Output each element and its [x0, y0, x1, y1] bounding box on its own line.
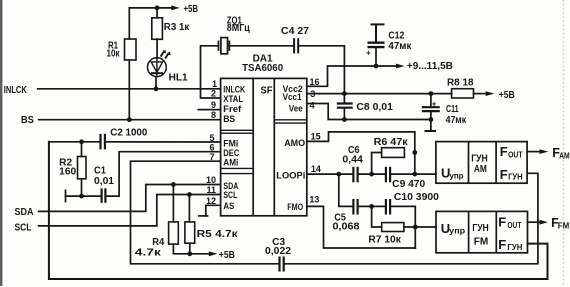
svg-text:1: 1	[212, 79, 217, 89]
node C11/Vee	[429, 117, 434, 122]
node C6/C9/R6	[369, 172, 374, 177]
svg-text:упр: упр	[449, 226, 465, 236]
node R3/+5V	[155, 6, 160, 11]
wire R4 top lead	[172, 185, 174, 222]
svg-text:ГУН: ГУН	[472, 222, 489, 234]
wire C9 to AM block input	[390, 173, 436, 175]
svg-text:F: F	[500, 144, 508, 159]
block U upr / GUN FM / F out	[436, 211, 528, 252]
wire pin6 DEC down to C1	[105, 152, 220, 196]
svg-text:SCL: SCL	[15, 222, 32, 233]
node R7/FM input	[413, 225, 418, 230]
capacitor C1	[102, 188, 106, 203]
svg-text:FM: FM	[558, 222, 570, 231]
svg-text:Vcc1: Vcc1	[283, 92, 303, 103]
wire R5 bottom lead	[189, 243, 191, 254]
svg-text:+5В: +5В	[499, 90, 515, 101]
wire C4 right down to Vcc1 node and C8	[298, 46, 344, 104]
resistor R6	[382, 148, 405, 158]
svg-text:0,068: 0,068	[333, 222, 360, 233]
node R6 right	[412, 150, 417, 155]
svg-text:47мк: 47мк	[446, 115, 467, 126]
wire pin4 Vee line	[307, 104, 431, 120]
svg-text:LOOPi: LOOPi	[276, 170, 305, 181]
wire R3 to HL1	[156, 39, 158, 58]
page left border bar	[0, 0, 2, 286]
wire crystal to C4	[229, 45, 294, 47]
svg-text:R4: R4	[152, 237, 164, 248]
node R4R5/+5V	[187, 251, 192, 256]
svg-text:R8 18: R8 18	[447, 78, 474, 89]
svg-text:5: 5	[210, 133, 215, 143]
wire pin12 AS to ground	[206, 205, 221, 216]
wire +5V top rail	[129, 7, 171, 9]
svg-text:+9...11,5В: +9...11,5В	[407, 61, 453, 72]
wire R7 left leg	[372, 206, 382, 227]
svg-text:8МГц: 8МГц	[227, 23, 251, 34]
wire C8 bottom stem	[343, 108, 345, 120]
wire R2 node stub to end bar	[66, 195, 82, 197]
svg-text:16: 16	[310, 77, 320, 87]
svg-text:упр: упр	[450, 171, 464, 181]
svg-text:SF: SF	[261, 85, 274, 97]
svg-text:HL1: HL1	[169, 73, 188, 84]
page right dotted edge	[563, 0, 565, 287]
wire XTAL: crystal left lead down to pin 2	[201, 46, 221, 98]
wire AMI feedback right of C3 to AM gun riser	[284, 173, 538, 263]
svg-text:160: 160	[59, 167, 76, 178]
wire FMI line from frame to C2	[49, 141, 101, 143]
wire R5 top lead	[188, 195, 190, 222]
node C11/Vcc1	[429, 91, 434, 96]
resistor R8	[452, 89, 474, 98]
capacitor C6	[353, 167, 357, 183]
svg-text:C8 0,01: C8 0,01	[356, 102, 393, 113]
svg-text:ГУН: ГУН	[508, 173, 523, 182]
svg-text:TSA6060: TSA6060	[242, 63, 283, 74]
wire R2 top lead	[81, 142, 83, 157]
wire R6 left leg	[372, 153, 382, 175]
quartz crystal ZQ1	[219, 38, 230, 54]
svg-text:SDA: SDA	[15, 207, 34, 218]
wire INLCK net	[38, 88, 221, 90]
wire SDA net	[39, 185, 221, 212]
svg-text:F: F	[498, 215, 506, 230]
wire AM Fout arrow lead	[527, 151, 539, 153]
node C12/rail	[374, 64, 379, 69]
label +5V top with arrow	[171, 6, 180, 11]
wire R1 vertical from +5V to BS line	[128, 8, 130, 39]
node R4/SDA	[171, 182, 176, 187]
wire R7 right to FM block input	[404, 226, 436, 228]
node R5/SCL	[187, 192, 192, 197]
svg-text:INLCK: INLCK	[4, 85, 28, 96]
wire pin14 LOOPi line to C6	[307, 173, 354, 175]
svg-text:AS: AS	[223, 201, 234, 212]
resistor R5	[185, 222, 195, 243]
svg-text:AMO: AMO	[284, 138, 305, 149]
svg-text:C4 27: C4 27	[281, 26, 309, 37]
wire R3 top	[156, 8, 158, 18]
wire Fref pin 9 stub	[198, 109, 220, 111]
node C4/Vcc1/C8	[342, 91, 347, 96]
node C8/Vee	[342, 117, 347, 122]
svg-text:R6 47к: R6 47к	[374, 137, 409, 148]
wire C11 top stem	[430, 94, 432, 108]
wire C10 right down FM input riser	[390, 206, 415, 248]
capacitor C9	[386, 167, 390, 183]
svg-text:AM: AM	[559, 151, 570, 160]
wire pin16 Vcc2 riser to +9V rail	[307, 66, 397, 86]
wire C5 to C10	[358, 205, 386, 207]
svg-text:C10 3900: C10 3900	[394, 192, 439, 203]
capacitor C3	[280, 257, 284, 272]
svg-text:47мк: 47мк	[388, 41, 412, 52]
svg-text:0,01: 0,01	[94, 176, 114, 187]
resistor R7	[382, 223, 404, 232]
wire C6 to C9	[358, 173, 386, 175]
label F AM with arrow	[540, 149, 549, 154]
svg-text:6: 6	[210, 142, 215, 152]
wire C11 bottom stem to ground bar	[430, 111, 432, 131]
node HL1/INLCK	[154, 86, 159, 91]
svg-text:10: 10	[206, 175, 216, 185]
resistor R1	[125, 39, 137, 60]
svg-text:4.7к: 4.7к	[135, 248, 162, 259]
wire R2 bottom lead	[81, 179, 83, 196]
svg-text:9: 9	[211, 100, 216, 110]
svg-text:F: F	[498, 237, 506, 252]
capacitor C4	[294, 38, 298, 53]
label +5V bottom with arrow	[209, 251, 218, 256]
svg-text:C12: C12	[388, 30, 404, 41]
wire LOOPi node down to C5 line	[339, 174, 354, 206]
node C9/AM input	[412, 172, 417, 177]
svg-text:Vee: Vee	[289, 104, 303, 115]
block U upr / GUN AM / F out	[436, 142, 527, 184]
svg-text:ГУН: ГУН	[507, 243, 522, 252]
svg-text:0,44: 0,44	[342, 155, 363, 166]
node C5/C10/R7	[369, 204, 374, 209]
svg-text:FM: FM	[474, 236, 489, 248]
svg-text:C11: C11	[446, 104, 459, 115]
svg-text:11: 11	[207, 185, 217, 195]
wire SCL net	[39, 195, 221, 226]
capacitor C12 electrolytic	[368, 24, 385, 47]
wire pin7 AMI feedback down	[131, 161, 280, 264]
svg-text:15: 15	[311, 132, 321, 142]
wire +5V arrow lead bottom	[190, 253, 209, 255]
capacitor C5	[353, 199, 357, 215]
wire left frame vertical FM feedback	[49, 142, 548, 279]
svg-text:R7 10к: R7 10к	[368, 235, 402, 246]
svg-text:14: 14	[311, 164, 321, 174]
svg-text:SCL: SCL	[223, 190, 237, 201]
label F FM with arrow	[539, 220, 548, 225]
svg-text:OUT: OUT	[507, 221, 521, 230]
svg-text:2: 2	[211, 89, 216, 99]
wire R4 bottom to +5V node	[173, 244, 189, 254]
svg-text:BS: BS	[223, 114, 235, 125]
LED HL1	[148, 50, 171, 77]
node R2/C1	[79, 194, 84, 199]
resistor R2	[78, 157, 87, 179]
svg-text:OUT: OUT	[508, 151, 523, 160]
label +5V right with arrow	[486, 91, 495, 96]
wire R8 to arrow	[474, 93, 487, 95]
svg-text:10к: 10к	[107, 49, 121, 60]
svg-text:AMi: AMi	[223, 158, 238, 169]
svg-text:8: 8	[211, 110, 216, 120]
svg-text:R3 1к: R3 1к	[164, 22, 190, 33]
svg-text:0,022: 0,022	[265, 246, 291, 257]
svg-text:3: 3	[310, 89, 315, 99]
svg-text:F: F	[500, 167, 508, 182]
node R2/FMI	[79, 139, 84, 144]
wire HL1 cathode to INLCK line	[155, 77, 157, 89]
capacitor C10	[386, 199, 390, 215]
svg-text:+: +	[366, 49, 371, 58]
svg-text:12: 12	[206, 196, 216, 206]
capacitor C2	[101, 134, 105, 150]
wire pin15 AMO loop over R6	[307, 132, 415, 174]
wire end bar terminal	[65, 190, 67, 201]
wire C1 left to R2 node	[82, 195, 102, 197]
svg-text:FMO: FMO	[287, 202, 303, 213]
node LOOPi/C5 branch	[336, 172, 341, 177]
svg-text:R5 4.7к: R5 4.7к	[197, 229, 239, 240]
resistor R4	[169, 222, 179, 244]
capacitor C11 electrolytic	[422, 107, 440, 111]
wire pin3 Vcc1 line	[307, 93, 452, 95]
wire C2 to pin5 FMI	[105, 141, 221, 143]
ground bar below C11	[425, 130, 437, 132]
wire BS net	[39, 119, 221, 121]
resistor R3	[152, 18, 163, 40]
wire pin13 FMO down and right	[307, 206, 416, 248]
svg-text:+5В: +5В	[219, 250, 235, 261]
svg-text:C9 470: C9 470	[392, 179, 425, 190]
node R1/BS	[127, 117, 132, 122]
ground bar at AS pin	[199, 215, 208, 217]
IC DA1 TSA6060	[221, 78, 307, 215]
svg-text:АМ: АМ	[474, 163, 487, 175]
capacitor C8	[337, 104, 353, 108]
wire C12 stem to rail	[375, 47, 377, 66]
svg-text:C1: C1	[94, 166, 106, 177]
label +9...11,5V with arrow	[396, 64, 405, 69]
svg-text:C2 1000: C2 1000	[110, 127, 147, 138]
svg-text:BS: BS	[21, 115, 34, 126]
svg-text:+5В: +5В	[184, 4, 199, 15]
wire FM Fout arrow lead	[528, 221, 540, 223]
svg-text:13: 13	[309, 194, 319, 204]
svg-text:+: +	[432, 100, 437, 109]
svg-text:7: 7	[210, 152, 215, 162]
svg-text:4: 4	[310, 100, 315, 110]
